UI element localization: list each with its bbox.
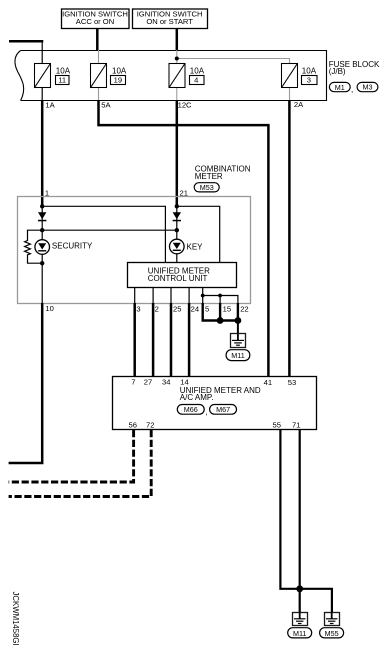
svg-text:A/C AMP.: A/C AMP.: [180, 393, 214, 402]
svg-text:ON or START: ON or START: [146, 17, 193, 26]
svg-text:SECURITY: SECURITY: [52, 242, 93, 251]
svg-text:M1: M1: [335, 83, 345, 92]
svg-text:25: 25: [173, 304, 181, 313]
svg-text:41: 41: [264, 378, 272, 387]
svg-text:M55: M55: [325, 629, 339, 638]
svg-text:53: 53: [288, 378, 296, 387]
svg-text:72: 72: [146, 420, 154, 429]
svg-text:12C: 12C: [178, 101, 192, 110]
svg-text:15: 15: [223, 304, 231, 313]
svg-text:,: ,: [205, 408, 207, 417]
svg-text:10: 10: [45, 304, 53, 313]
svg-text:34: 34: [162, 378, 170, 387]
svg-text:M3: M3: [363, 83, 373, 92]
svg-text:5A: 5A: [101, 101, 111, 110]
svg-text:10A: 10A: [112, 66, 127, 75]
svg-text:4: 4: [194, 76, 198, 85]
svg-text:METER: METER: [195, 172, 223, 181]
svg-text:JCKWM1458GI: JCKWM1458GI: [11, 592, 20, 646]
svg-text:3: 3: [136, 304, 140, 313]
svg-text:(J/B): (J/B): [329, 67, 346, 76]
svg-text:10A: 10A: [302, 66, 317, 75]
svg-text:M67: M67: [216, 405, 230, 414]
svg-text:CONTROL UNIT: CONTROL UNIT: [148, 274, 208, 283]
svg-text:3: 3: [307, 76, 311, 85]
svg-text:10A: 10A: [190, 66, 205, 75]
svg-text:24: 24: [191, 304, 199, 313]
svg-text:M53: M53: [200, 183, 214, 192]
svg-text:M11: M11: [231, 351, 244, 360]
svg-text:ACC or ON: ACC or ON: [76, 17, 114, 26]
svg-text:7: 7: [131, 378, 135, 387]
svg-text:22: 22: [240, 304, 248, 313]
svg-text:1A: 1A: [45, 101, 55, 110]
svg-text:10A: 10A: [56, 66, 71, 75]
svg-text:KEY: KEY: [187, 242, 204, 251]
svg-text:5: 5: [205, 304, 209, 313]
svg-text:2A: 2A: [294, 100, 304, 109]
svg-text:,: ,: [351, 85, 353, 94]
svg-text:2: 2: [155, 304, 159, 313]
svg-text:71: 71: [292, 420, 300, 429]
svg-text:M11: M11: [293, 629, 306, 638]
svg-text:11: 11: [58, 76, 66, 85]
svg-text:M66: M66: [184, 405, 198, 414]
svg-text:55: 55: [273, 420, 281, 429]
svg-text:19: 19: [114, 76, 122, 85]
svg-text:27: 27: [144, 378, 152, 387]
svg-text:56: 56: [129, 420, 137, 429]
